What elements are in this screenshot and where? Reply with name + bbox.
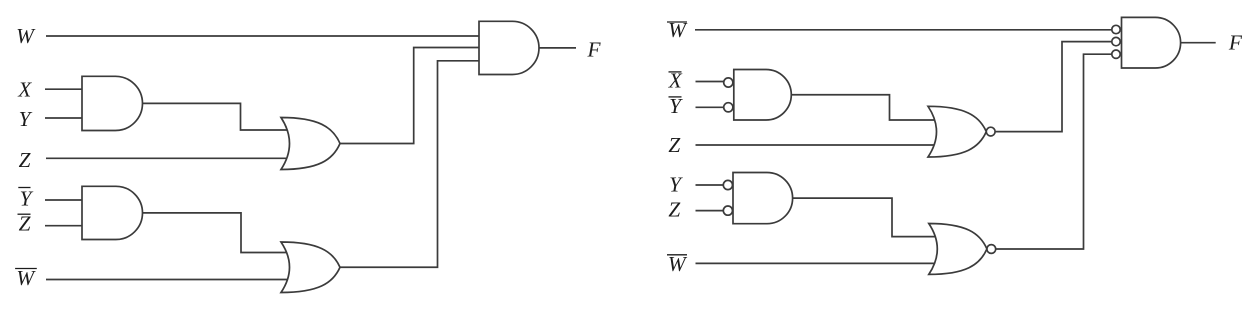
svg-text:Z: Z	[668, 198, 681, 222]
svg-text:Z: Z	[668, 133, 681, 157]
svg-text:Z: Z	[19, 212, 32, 236]
svg-text:Z: Z	[19, 148, 32, 172]
svg-text:X: X	[17, 77, 32, 101]
svg-text:W: W	[16, 266, 36, 290]
svg-text:W: W	[16, 24, 36, 48]
svg-text:W: W	[668, 252, 688, 276]
svg-text:F: F	[1228, 30, 1243, 54]
svg-text:F: F	[586, 37, 601, 61]
